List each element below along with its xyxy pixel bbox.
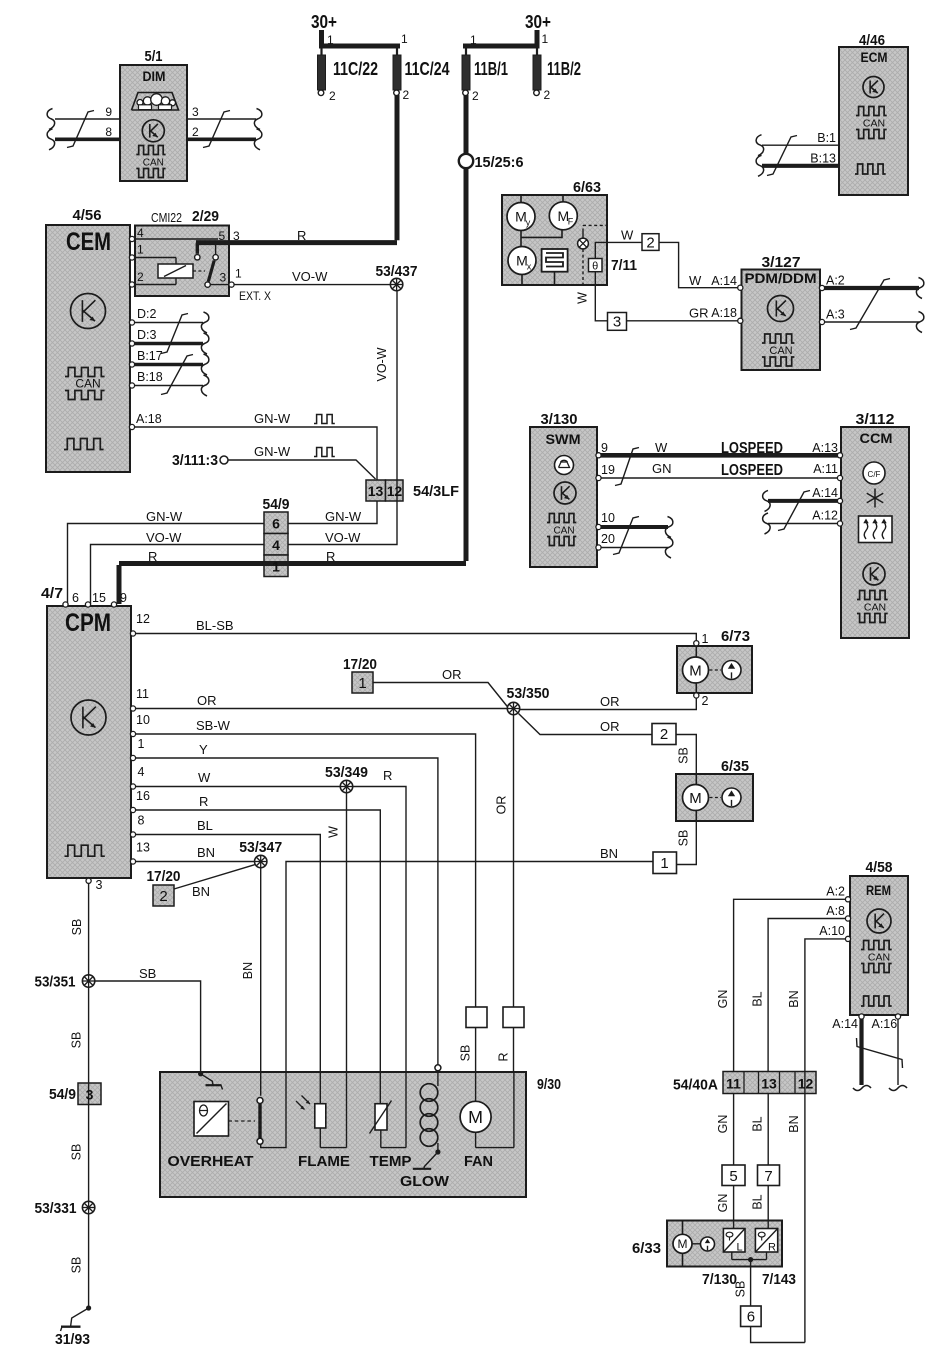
svg-text:BN: BN xyxy=(197,845,215,860)
svg-text:6/35: 6/35 xyxy=(721,758,749,775)
svg-text:3: 3 xyxy=(86,1087,94,1103)
svg-text:θ: θ xyxy=(592,260,598,272)
svg-text:SB: SB xyxy=(70,1032,84,1049)
svg-text:13: 13 xyxy=(136,841,150,855)
svg-text:10: 10 xyxy=(136,713,150,727)
svg-text:6/73: 6/73 xyxy=(721,628,750,645)
svg-text:FLAME: FLAME xyxy=(298,1154,350,1170)
svg-text:3: 3 xyxy=(192,105,199,119)
svg-text:SB: SB xyxy=(677,830,691,847)
svg-text:R: R xyxy=(297,228,306,243)
svg-text:OR: OR xyxy=(495,796,509,815)
svg-text:1: 1 xyxy=(470,33,477,47)
svg-text:2: 2 xyxy=(544,88,551,102)
svg-text:DIM: DIM xyxy=(143,68,166,84)
svg-text:53/347: 53/347 xyxy=(239,839,282,856)
svg-text:BL: BL xyxy=(197,818,213,833)
svg-text:7/143: 7/143 xyxy=(762,1271,796,1288)
svg-text:M: M xyxy=(468,1107,483,1127)
svg-text:53/351: 53/351 xyxy=(35,974,76,991)
svg-text:R: R xyxy=(768,1242,776,1254)
svg-text:R: R xyxy=(497,1052,511,1061)
svg-text:54/40A: 54/40A xyxy=(673,1077,718,1094)
svg-text:SB: SB xyxy=(139,966,156,981)
svg-text:5: 5 xyxy=(729,1168,737,1185)
svg-text:LOSPEED: LOSPEED xyxy=(721,462,783,479)
svg-text:1: 1 xyxy=(660,855,668,872)
svg-text:2: 2 xyxy=(646,235,654,252)
svg-text:7: 7 xyxy=(764,1168,772,1185)
svg-text:11B/1: 11B/1 xyxy=(474,59,508,79)
svg-text:7/130: 7/130 xyxy=(702,1271,737,1288)
svg-text:A:13: A:13 xyxy=(812,441,838,455)
svg-text:CPM: CPM xyxy=(65,609,111,637)
svg-text:3: 3 xyxy=(220,271,227,285)
svg-text:7/11: 7/11 xyxy=(611,257,637,274)
svg-text:A:3: A:3 xyxy=(826,308,845,322)
svg-text:A:14: A:14 xyxy=(832,1017,858,1031)
svg-text:SB: SB xyxy=(70,1144,84,1161)
svg-text:ECM: ECM xyxy=(861,49,888,65)
svg-text:CAN: CAN xyxy=(864,602,886,614)
svg-text:CAN: CAN xyxy=(75,377,100,391)
svg-text:VO-W: VO-W xyxy=(325,530,361,545)
svg-text:17/20: 17/20 xyxy=(343,656,377,673)
svg-text:4/7: 4/7 xyxy=(41,585,63,602)
svg-text:L: L xyxy=(736,1242,742,1254)
svg-text:2: 2 xyxy=(702,694,709,708)
svg-text:1: 1 xyxy=(272,559,280,575)
svg-text:GN-W: GN-W xyxy=(146,509,183,524)
svg-text:19: 19 xyxy=(601,463,615,477)
svg-text:M: M xyxy=(689,662,701,679)
svg-text:R: R xyxy=(199,794,208,809)
svg-text:VO-W: VO-W xyxy=(292,269,328,284)
svg-text:BL-SB: BL-SB xyxy=(196,618,234,633)
svg-text:1: 1 xyxy=(401,32,408,46)
svg-text:GN: GN xyxy=(716,1194,730,1213)
svg-text:6: 6 xyxy=(72,591,79,605)
svg-text:GN: GN xyxy=(652,461,672,476)
svg-text:y: y xyxy=(526,218,531,228)
svg-text:53/331: 53/331 xyxy=(35,1200,77,1217)
svg-text:3/112: 3/112 xyxy=(856,411,895,428)
svg-text:9: 9 xyxy=(105,105,112,119)
svg-text:x: x xyxy=(527,262,532,272)
svg-text:1: 1 xyxy=(137,243,144,257)
svg-text:CAN: CAN xyxy=(868,952,890,964)
svg-text:11B/2: 11B/2 xyxy=(547,59,581,79)
svg-text:B:18: B:18 xyxy=(137,370,163,384)
svg-text:F: F xyxy=(568,217,574,227)
svg-text:53/350: 53/350 xyxy=(507,685,550,702)
svg-text:54/3LF: 54/3LF xyxy=(413,483,459,500)
svg-text:53/437: 53/437 xyxy=(376,263,418,280)
svg-text:4: 4 xyxy=(272,537,280,553)
svg-text:3: 3 xyxy=(96,878,103,892)
svg-text:OR: OR xyxy=(197,693,217,708)
svg-text:W: W xyxy=(198,770,211,785)
svg-text:GN: GN xyxy=(716,990,730,1009)
svg-text:TEMP: TEMP xyxy=(370,1154,412,1170)
svg-text:CEM: CEM xyxy=(66,228,111,256)
svg-text:5: 5 xyxy=(219,229,226,243)
svg-text:OR: OR xyxy=(600,694,620,709)
svg-text:54/9: 54/9 xyxy=(49,1086,76,1103)
svg-text:4/46: 4/46 xyxy=(859,32,885,49)
svg-text:W: W xyxy=(327,826,341,838)
svg-text:SB: SB xyxy=(677,747,691,764)
svg-text:B:1: B:1 xyxy=(817,131,836,145)
svg-text:6: 6 xyxy=(272,516,280,532)
svg-text:3: 3 xyxy=(233,229,240,243)
svg-text:M: M xyxy=(678,1237,688,1251)
svg-text:13: 13 xyxy=(368,483,384,499)
svg-text:BN: BN xyxy=(787,990,801,1007)
svg-text:16: 16 xyxy=(136,789,150,803)
svg-text:CCM: CCM xyxy=(860,430,893,446)
svg-text:10: 10 xyxy=(601,511,615,525)
svg-text:A:8: A:8 xyxy=(826,904,845,918)
svg-text:CAN: CAN xyxy=(769,345,792,357)
svg-text:A:2: A:2 xyxy=(826,274,845,288)
svg-text:53/349: 53/349 xyxy=(325,764,368,781)
svg-text:1: 1 xyxy=(542,32,549,46)
svg-text:30+: 30+ xyxy=(525,12,551,32)
svg-text:3/111:3: 3/111:3 xyxy=(172,452,218,469)
svg-text:GN: GN xyxy=(716,1115,730,1134)
svg-text:GN-W: GN-W xyxy=(325,509,362,524)
svg-text:11: 11 xyxy=(726,1076,741,1092)
svg-text:OR: OR xyxy=(600,719,620,734)
svg-text:VO-W: VO-W xyxy=(375,347,389,381)
svg-text:PDM/DDM: PDM/DDM xyxy=(745,270,817,286)
svg-text:15: 15 xyxy=(92,591,106,605)
svg-text:GLOW: GLOW xyxy=(400,1174,449,1190)
svg-text:VO-W: VO-W xyxy=(146,530,182,545)
svg-text:8: 8 xyxy=(105,125,112,139)
svg-text:1: 1 xyxy=(235,267,242,281)
svg-text:2: 2 xyxy=(660,726,668,743)
svg-text:CAN: CAN xyxy=(143,158,164,169)
svg-text:9: 9 xyxy=(120,591,127,605)
svg-text:12: 12 xyxy=(136,612,150,626)
svg-text:OR: OR xyxy=(442,667,462,682)
svg-text:CAN: CAN xyxy=(553,526,574,537)
svg-text:SB: SB xyxy=(459,1045,473,1062)
svg-text:D:3: D:3 xyxy=(137,328,157,342)
svg-text:2: 2 xyxy=(329,89,336,103)
svg-text:A:14: A:14 xyxy=(711,274,737,288)
svg-text:9/30: 9/30 xyxy=(537,1076,561,1093)
svg-text:6: 6 xyxy=(747,1309,755,1326)
svg-text:D:2: D:2 xyxy=(137,307,157,321)
svg-text:2: 2 xyxy=(472,89,479,103)
svg-text:11C/22: 11C/22 xyxy=(333,59,378,79)
svg-text:A:2: A:2 xyxy=(826,885,845,899)
svg-text:12: 12 xyxy=(387,483,403,499)
svg-text:SB: SB xyxy=(734,1281,748,1298)
svg-text:5/1: 5/1 xyxy=(145,48,163,65)
svg-text:REM: REM xyxy=(866,882,891,898)
svg-text:M: M xyxy=(689,790,701,807)
svg-text:LOSPEED: LOSPEED xyxy=(721,440,783,457)
svg-text:SWM: SWM xyxy=(546,431,581,447)
svg-text:12: 12 xyxy=(798,1076,814,1092)
svg-text:W: W xyxy=(576,292,590,304)
svg-text:SB: SB xyxy=(70,919,84,936)
svg-text:C/F: C/F xyxy=(868,470,881,479)
svg-text:6/63: 6/63 xyxy=(573,179,601,196)
svg-text:BL: BL xyxy=(751,991,765,1006)
svg-text:4/58: 4/58 xyxy=(866,859,893,876)
svg-text:BN: BN xyxy=(600,846,618,861)
svg-text:SB-W: SB-W xyxy=(196,718,231,733)
svg-text:A:18: A:18 xyxy=(711,306,737,320)
svg-text:GN-W: GN-W xyxy=(254,444,291,459)
svg-text:4: 4 xyxy=(138,765,145,779)
svg-text:2/29: 2/29 xyxy=(192,208,219,225)
svg-text:4: 4 xyxy=(137,226,144,240)
svg-text:A:18: A:18 xyxy=(136,412,162,426)
svg-text:A:16: A:16 xyxy=(872,1017,898,1031)
svg-text:OVERHEAT: OVERHEAT xyxy=(168,1154,254,1170)
svg-text:W: W xyxy=(689,273,702,288)
svg-text:3: 3 xyxy=(613,314,621,331)
svg-text:BN: BN xyxy=(787,1115,801,1132)
svg-text:FAN: FAN xyxy=(464,1154,493,1170)
svg-text:8: 8 xyxy=(138,814,145,828)
svg-text:3/130: 3/130 xyxy=(541,411,578,428)
svg-text:A:14: A:14 xyxy=(812,486,838,500)
svg-text:2: 2 xyxy=(192,125,199,139)
svg-text:30+: 30+ xyxy=(311,12,337,32)
svg-text:1: 1 xyxy=(327,33,334,47)
svg-text:1: 1 xyxy=(702,632,709,646)
svg-text:BN: BN xyxy=(241,962,255,979)
svg-text:CAN: CAN xyxy=(863,118,885,130)
svg-text:6/33: 6/33 xyxy=(632,1240,661,1257)
svg-text:11: 11 xyxy=(136,687,149,701)
svg-text:BL: BL xyxy=(751,1194,765,1209)
svg-text:BL: BL xyxy=(751,1116,765,1131)
svg-text:B:17: B:17 xyxy=(137,349,163,363)
svg-text:B:13: B:13 xyxy=(810,152,836,166)
svg-text:Y: Y xyxy=(199,742,208,757)
svg-text:3/127: 3/127 xyxy=(762,254,801,271)
svg-text:EXT. X: EXT. X xyxy=(239,289,271,303)
svg-text:9: 9 xyxy=(601,441,608,455)
svg-text:R: R xyxy=(326,549,335,564)
svg-text:CMI22: CMI22 xyxy=(151,211,182,225)
svg-text:R: R xyxy=(383,768,392,783)
svg-text:17/20: 17/20 xyxy=(147,868,181,885)
svg-text:W: W xyxy=(621,228,634,243)
svg-text:A:12: A:12 xyxy=(812,509,838,523)
svg-text:1: 1 xyxy=(358,675,366,692)
svg-text:1: 1 xyxy=(138,737,145,751)
svg-text:54/9: 54/9 xyxy=(263,496,290,513)
svg-text:15/25:6: 15/25:6 xyxy=(475,154,524,171)
svg-text:20: 20 xyxy=(601,532,615,546)
svg-text:W: W xyxy=(655,440,668,455)
svg-text:2: 2 xyxy=(403,88,410,102)
svg-text:2: 2 xyxy=(137,270,144,284)
svg-text:31/93: 31/93 xyxy=(55,1331,90,1348)
svg-text:GR: GR xyxy=(689,306,709,321)
svg-text:11C/24: 11C/24 xyxy=(405,59,450,79)
svg-text:GN-W: GN-W xyxy=(254,411,291,426)
svg-text:A:10: A:10 xyxy=(819,924,845,938)
svg-text:4/56: 4/56 xyxy=(73,207,102,224)
svg-text:A:11: A:11 xyxy=(813,462,838,476)
svg-text:R: R xyxy=(148,549,157,564)
svg-text:BN: BN xyxy=(192,884,210,899)
svg-text:SB: SB xyxy=(70,1257,84,1274)
svg-text:13: 13 xyxy=(761,1076,777,1092)
svg-text:2: 2 xyxy=(159,888,167,905)
